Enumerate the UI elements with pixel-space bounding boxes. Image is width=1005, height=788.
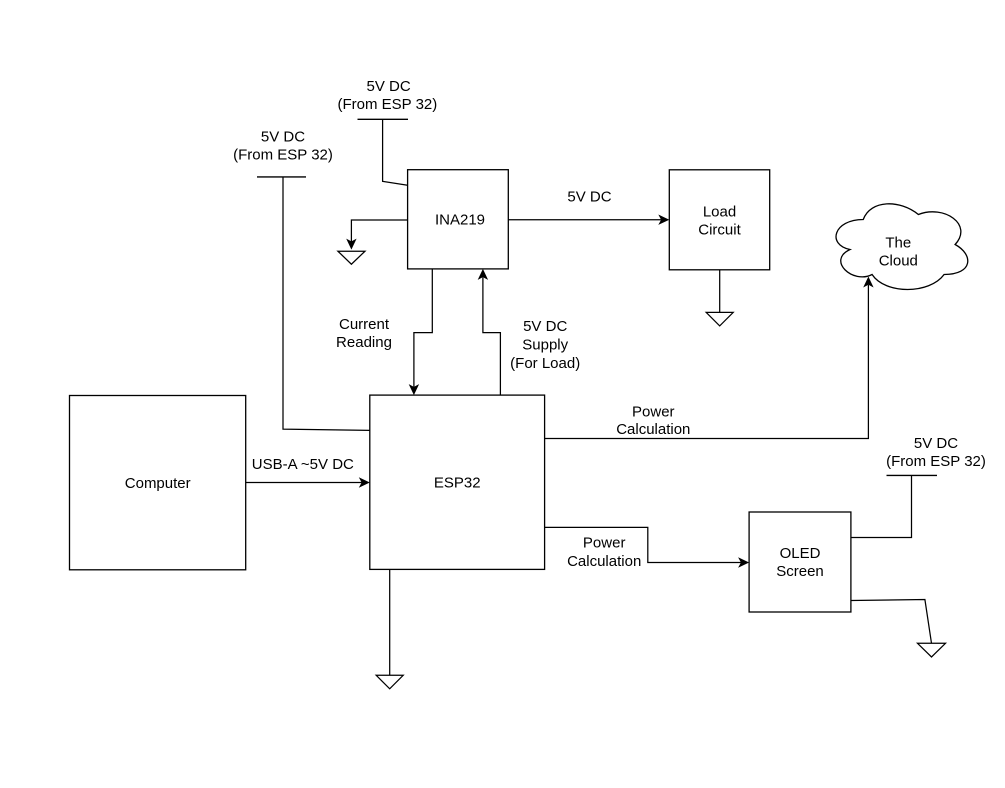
svg-text:Load: Load xyxy=(703,204,736,221)
svg-text:USB-A ~5V DC: USB-A ~5V DC xyxy=(252,456,354,473)
svg-text:Supply: Supply xyxy=(522,337,568,354)
svg-text:Circuit: Circuit xyxy=(698,222,741,239)
svg-text:Calculation: Calculation xyxy=(616,421,690,438)
wire from right 5V bar to OLED right pin xyxy=(851,475,912,537)
svg-text:ESP32: ESP32 xyxy=(434,475,481,492)
svg-text:5V DC: 5V DC xyxy=(367,78,411,95)
svg-text:(From ESP 32): (From ESP 32) xyxy=(338,96,438,113)
cloud The Cloud xyxy=(836,204,968,290)
svg-text:Computer: Computer xyxy=(125,475,191,492)
svg-text:OLED: OLED xyxy=(780,545,821,562)
ground symbol (right of OLED Screen) xyxy=(918,643,946,657)
power rail bar +5V (right, from ESP32) xyxy=(886,435,986,475)
wire Power Calculation: ESP32 -> The Cloud xyxy=(545,277,874,439)
block Computer xyxy=(70,396,246,570)
svg-text:The: The xyxy=(885,235,911,252)
svg-text:Power: Power xyxy=(632,403,675,420)
svg-text:(From ESP 32): (From ESP 32) xyxy=(886,453,986,470)
block ESP32 xyxy=(370,395,545,569)
ground symbol (below ESP32) xyxy=(376,675,403,689)
wire ESP32 to ground xyxy=(389,569,391,675)
ground symbol (below Load Circuit) xyxy=(706,312,733,326)
block Load Circuit xyxy=(669,170,769,270)
wire OLED Screen to ground xyxy=(851,600,932,644)
svg-text:Reading: Reading xyxy=(336,334,392,351)
wire Current Reading: INA219 bottom -> ESP32 top xyxy=(336,269,432,395)
svg-text:Cloud: Cloud xyxy=(879,253,918,270)
svg-text:5V DC: 5V DC xyxy=(914,435,958,452)
power rail bar +5V (top, from ESP32) xyxy=(338,78,438,119)
svg-text:INA219: INA219 xyxy=(435,212,485,229)
wire from left 5V bar to ESP32 left pin xyxy=(283,177,370,431)
svg-text:Power: Power xyxy=(583,535,626,552)
svg-text:5V DC: 5V DC xyxy=(567,189,611,206)
ground symbol (left of INA219) xyxy=(338,251,365,264)
wire Load Circuit to ground xyxy=(719,270,721,313)
svg-text:(From ESP 32): (From ESP 32) xyxy=(233,147,333,164)
wire INA219 left pin to ground xyxy=(351,220,407,242)
svg-text:5V DC: 5V DC xyxy=(523,318,567,335)
block OLED Screen xyxy=(749,512,851,612)
svg-text:Screen: Screen xyxy=(776,563,824,580)
svg-text:Calculation: Calculation xyxy=(567,553,641,570)
svg-text:Current: Current xyxy=(339,316,390,333)
power rail bar +5V (left, from ESP32) xyxy=(233,129,333,177)
wire from top 5V bar to INA219 left pin xyxy=(383,119,408,185)
svg-text:5V DC: 5V DC xyxy=(261,129,305,146)
block U1 INA219 xyxy=(408,170,509,269)
wire INA219 -> Load Circuit (5V DC) xyxy=(508,189,669,225)
wire Power Calculation: ESP32 -> OLED Screen xyxy=(545,527,750,570)
svg-text:(For Load): (For Load) xyxy=(510,355,580,372)
wire 5V DC Supply (For Load): ESP32 top -> INA219 bottom xyxy=(478,269,581,395)
wire USB-A ~5V DC: Computer -> ESP32 xyxy=(246,456,370,488)
arrowhead into ground xyxy=(346,239,356,250)
